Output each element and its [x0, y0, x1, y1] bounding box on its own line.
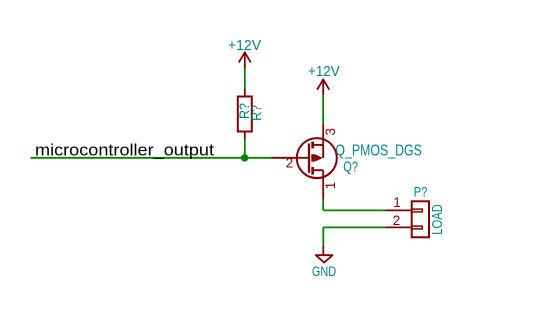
wire pin3 to +12V — [322, 94, 324, 123]
svg-text:1: 1 — [323, 182, 338, 190]
svg-text:P?: P? — [414, 183, 428, 199]
junction node — [241, 154, 248, 161]
wire gnd vertical — [322, 227, 324, 245]
svg-text:1: 1 — [393, 195, 401, 210]
wire resistor to junction — [244, 139, 246, 158]
internal vertical source link — [322, 145, 324, 158]
svg-text:2: 2 — [393, 213, 401, 228]
power symbol +12V (above mosfet) — [318, 80, 329, 95]
wire drain down — [322, 199, 324, 210]
drain connection bottom horizontal — [313, 169, 323, 171]
transistor Q1 gate pin (pin 2) — [272, 157, 310, 159]
svg-text:GND: GND — [312, 263, 336, 279]
connector pin1 notch — [412, 209, 423, 212]
transistor gate bar — [308, 144, 310, 173]
transistor Q? P-MOSFET circle — [297, 138, 337, 178]
channel bar middle — [311, 154, 314, 161]
svg-text:LOAD: LOAD — [430, 204, 446, 235]
channel bar top — [311, 142, 314, 149]
connector P? pin 1 — [386, 209, 412, 211]
svg-text:microcontroller_output: microcontroller_output — [35, 141, 214, 159]
svg-text:3: 3 — [323, 128, 338, 136]
resistor R? body — [238, 97, 252, 132]
svg-text:Q_PMOS_DGS: Q_PMOS_DGS — [335, 143, 422, 160]
channel bar bottom — [311, 167, 314, 175]
ground triangle — [316, 255, 333, 262]
connector pin2 notch — [412, 226, 423, 229]
svg-text:2: 2 — [286, 155, 294, 170]
wire microcontroller_output to mosfet gate — [31, 157, 272, 159]
power symbol +12V (left, above resistor) — [239, 52, 250, 68]
source connection top horizontal — [313, 144, 323, 146]
resistor bottom pin — [244, 132, 246, 140]
svg-text:+12V: +12V — [228, 37, 261, 54]
body arrow (pmos) — [314, 154, 323, 162]
svg-text:Q?: Q? — [343, 159, 358, 176]
wire gnd to connector pin 2 (horizontal) — [323, 226, 385, 228]
connector P? pin 2 — [386, 226, 412, 228]
transistor pin 3 (source, top) — [322, 123, 324, 145]
ground symbol stem — [322, 246, 324, 255]
wire drain to connector pin 1 — [323, 209, 385, 211]
transistor pin 1 (drain, bottom) — [322, 170, 324, 199]
connector P? body — [412, 201, 429, 237]
resistor R? top pin — [244, 89, 246, 97]
svg-text:+12V: +12V — [308, 63, 340, 80]
wire from +12V arrow to resistor — [244, 68, 246, 89]
svg-text:R?: R? — [249, 105, 264, 121]
